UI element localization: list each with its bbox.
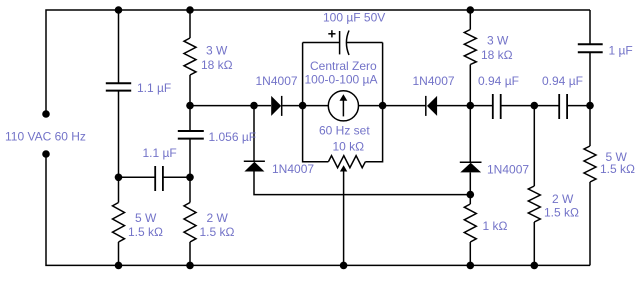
diode D3 triangle	[244, 162, 264, 172]
wire meter box top right segment	[347, 42, 383, 44]
meter M1 arrow head	[340, 94, 348, 100]
pot VR1 wiper arrow head	[340, 165, 347, 171]
junction bottom x=534	[531, 262, 539, 270]
svg-text:110 VAC 60 Hz: 110 VAC 60 Hz	[5, 130, 86, 144]
svg-text:18 kΩ: 18 kΩ	[201, 58, 233, 72]
junction bottom x=190	[186, 262, 194, 270]
wire meter box right vertical	[382, 43, 384, 106]
wire D3 bottom to node row y=194.6	[254, 172, 470, 195]
svg-text:1.5 kΩ: 1.5 kΩ	[600, 162, 635, 176]
svg-text:0.94 µF: 0.94 µF	[478, 74, 519, 88]
wire 1.1uF lower row y=177.3	[119, 176, 156, 178]
wire x=534 branch	[533, 106, 535, 186]
junction bottom x=118	[115, 262, 123, 270]
junction 1.1uF row x=190	[186, 174, 194, 182]
diode D1 cathode bar	[281, 96, 283, 116]
svg-text:60 Hz set: 60 Hz set	[319, 124, 370, 138]
diode D4 triangle	[460, 163, 481, 173]
svg-text:1N4007: 1N4007	[272, 162, 314, 176]
svg-text:100-0-100 µA: 100-0-100 µA	[305, 72, 378, 86]
wire x=470 resistor to node	[469, 65, 471, 106]
junction node row x=382	[379, 102, 387, 110]
wire x=190 branch top	[189, 10, 191, 38]
wire x=190 lower-middle	[189, 139, 191, 203]
wire D4 to node y=194.6	[469, 172, 471, 204]
svg-text:1 kΩ: 1 kΩ	[483, 219, 508, 233]
wire right column bottom	[589, 182, 591, 265]
wire x=118 branch middle	[118, 91, 120, 203]
wire meter box top left segment	[303, 42, 340, 44]
junction top x=118	[115, 6, 123, 14]
meter M1 circle	[328, 91, 358, 121]
svg-text:3 W: 3 W	[206, 44, 228, 58]
wire diode D1 to meter box node	[282, 105, 328, 107]
svg-text:2 W: 2 W	[552, 192, 574, 206]
junction top x=470	[467, 6, 475, 14]
junction node row x=302	[299, 102, 307, 110]
wire cap C4 to node x=534	[501, 105, 560, 107]
svg-text:2 W: 2 W	[207, 211, 229, 225]
wire x=470 branch top	[469, 10, 471, 30]
diode D2 cathode bar	[425, 96, 427, 116]
capacitor C5 0.94 uF plates	[558, 94, 560, 119]
svg-text:5 W: 5 W	[135, 211, 157, 225]
diode D3 cathode bar	[244, 160, 265, 162]
wire meter box left vertical	[302, 43, 304, 106]
wire pot wiper vertical	[343, 171, 345, 265]
junction top x=190	[186, 6, 194, 14]
svg-text:1.056 µF: 1.056 µF	[209, 130, 257, 144]
wire x=118 branch bottom	[118, 242, 120, 265]
terminal upper 110VAC	[42, 110, 50, 118]
resistor R5 1k zigzag	[464, 204, 476, 242]
wire cap C5 to right column	[567, 105, 590, 107]
svg-text:1.5 kΩ: 1.5 kΩ	[200, 225, 235, 239]
diode D1 triangle	[271, 96, 281, 116]
wire left column bottom	[46, 154, 590, 265]
capacitor C7 100uF electrolytic straight plate	[339, 31, 341, 54]
svg-text:1.1 µF: 1.1 µF	[143, 146, 177, 160]
wire x=470 bottom	[469, 242, 471, 265]
junction y=194 x=470	[467, 191, 475, 199]
resistor R6 2W 1.5k zigzag	[528, 186, 540, 222]
wire x=190 middle	[189, 75, 191, 131]
wire top bus	[46, 10, 590, 114]
capacitor C6 1 uF plates	[578, 43, 603, 45]
junction bottom x=470	[467, 262, 475, 270]
capacitor C7 curved plate	[346, 31, 349, 56]
wire x=534 bottom	[533, 222, 535, 265]
potentiometer VR1 zigzag	[328, 156, 365, 168]
svg-text:1N4007: 1N4007	[487, 163, 529, 177]
svg-text:0.94 µF: 0.94 µF	[542, 74, 583, 88]
svg-text:Central Zero: Central Zero	[310, 59, 377, 73]
resistor R2 18k right zigzag	[464, 30, 476, 65]
wire x=190 bottom	[189, 242, 191, 265]
capacitor C1 1.1 uF plates	[106, 82, 131, 84]
wire x=470 node to diode D4	[469, 106, 471, 163]
svg-text:1N4007: 1N4007	[413, 74, 455, 88]
junction bottom x=343	[340, 262, 348, 270]
wire right column middle	[589, 52, 591, 146]
wire right column top	[589, 10, 591, 44]
svg-text:18 kΩ: 18 kΩ	[481, 48, 513, 62]
diode D4 cathode bar	[460, 161, 482, 163]
resistor R1 18k left zigzag	[184, 38, 196, 75]
resistor R4 2W 1.5k zigzag	[184, 203, 196, 243]
capacitor C2 1.056 uF plates	[178, 130, 204, 132]
resistor R7 5W 1.5k zigzag	[584, 146, 596, 182]
svg-text:3 W: 3 W	[487, 34, 509, 48]
wire 1.1uF lower right	[163, 176, 190, 178]
resistor R3 5W 1.5k left zigzag	[113, 203, 125, 243]
wire pot left leg	[303, 106, 329, 162]
svg-text:1.5 kΩ: 1.5 kΩ	[128, 225, 163, 239]
wire diode D2 to node x=470	[437, 105, 493, 107]
wire meter right to diode D2	[358, 105, 425, 107]
svg-text:1 µF: 1 µF	[609, 43, 633, 57]
junction node row x=254	[250, 102, 258, 110]
svg-text:1.1 µF: 1.1 µF	[137, 81, 171, 95]
svg-text:100 µF 50V: 100 µF 50V	[323, 11, 385, 25]
junction node row x=470	[467, 102, 475, 110]
svg-text:1.5 kΩ: 1.5 kΩ	[544, 206, 579, 220]
junction node row x=590	[586, 102, 594, 110]
terminal lower 110VAC	[42, 150, 50, 158]
svg-text:1N4007: 1N4007	[256, 74, 298, 88]
junction 1.1uF row x=118	[115, 174, 123, 182]
junction node row x=534	[531, 102, 539, 110]
svg-text:10 kΩ: 10 kΩ	[333, 140, 365, 154]
wire pot right leg	[365, 106, 382, 162]
junction node row x=190	[186, 102, 194, 110]
meter M1 arrow shaft	[342, 100, 344, 116]
wire x=118 branch top	[118, 10, 120, 83]
capacitor C7 plus sign	[328, 30, 335, 37]
diode D2 triangle	[427, 96, 437, 116]
capacitor C4 0.94 uF plates	[492, 94, 494, 119]
capacitor C3 1.1 uF lower plates	[154, 166, 156, 191]
wire node row y=105.6 left	[190, 105, 271, 107]
wire diode D3 branch vertical	[253, 106, 255, 162]
